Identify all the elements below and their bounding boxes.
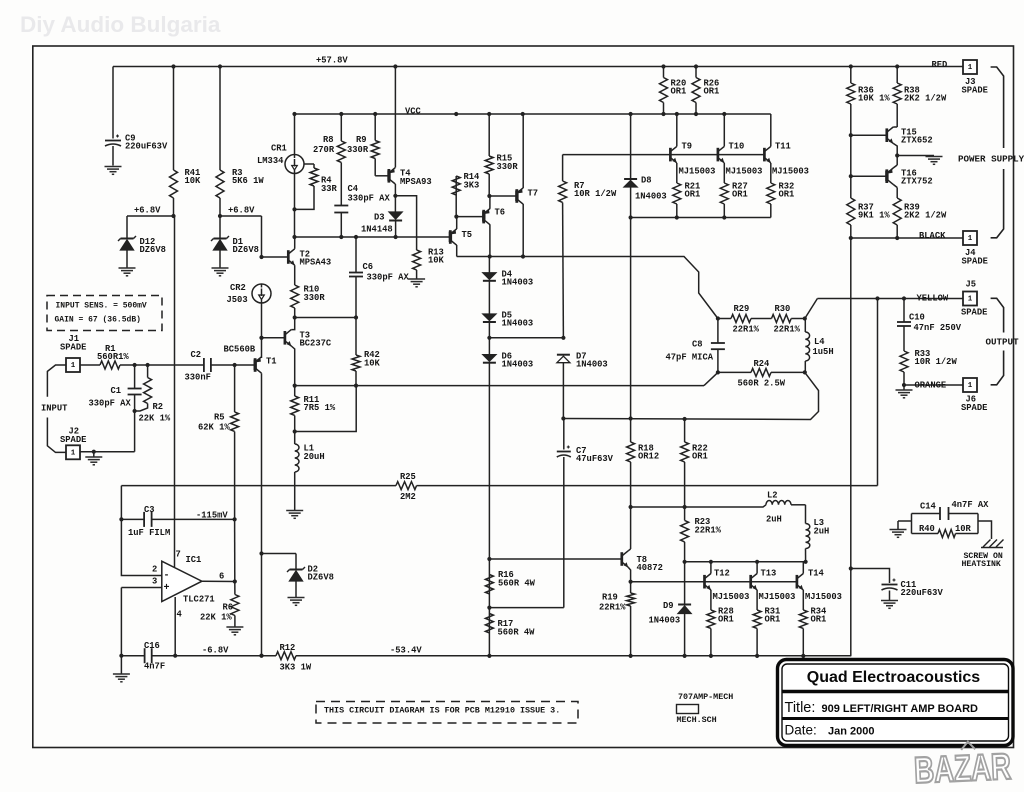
label T13 type [759,592,796,602]
wire D6 down to T8 base node [488,363,490,656]
junction BLACK R37 [849,236,900,240]
ground snubber [890,521,907,537]
label R33 [915,349,958,367]
svg-text:10R 1/2W: 10R 1/2W [915,357,958,367]
label C9 [125,133,168,151]
junction T12 collector [709,560,713,564]
node -53.4V label [390,645,422,655]
svg-text:1: 1 [968,296,973,304]
svg-text:OR1: OR1 [765,614,781,624]
diode D5 [483,281,496,322]
svg-text:47uF63V: 47uF63V [576,454,614,464]
transistor T6 [482,208,490,224]
transistor T9 [670,112,679,163]
svg-text:OUTPUT: OUTPUT [986,337,1020,348]
wire D7 down [562,363,564,419]
label D4 [502,269,534,287]
wire bridge to yellow [805,299,818,319]
wire R25 riser [877,299,879,486]
wire IC1 pin4 to -6.8V [174,597,176,656]
resistor R29 [718,315,772,323]
svg-text:+6.8V: +6.8V [134,205,161,215]
svg-text:1N4003: 1N4003 [502,318,534,328]
label R31 [765,606,781,624]
svg-text:-6.8V: -6.8V [202,645,229,655]
svg-text:D3: D3 [374,212,385,222]
svg-text:OR1: OR1 [671,86,687,96]
wire +input ground drop [120,588,122,656]
junction T8 emitter [629,580,633,584]
label R42 [364,350,381,369]
capacitor C1 [128,365,142,411]
svg-text:560R1%: 560R1% [97,352,129,362]
svg-text:10R 1/2W: 10R 1/2W [574,189,617,199]
svg-text:MJ15003: MJ15003 [713,592,750,602]
mech sheet symbol [677,692,734,725]
ground C11 [881,601,898,609]
svg-text:330R: 330R [497,162,519,172]
wire R10-C6 link [293,315,359,319]
svg-text:MPSA43: MPSA43 [300,257,332,267]
svg-text:T11: T11 [775,141,791,151]
label T7 [528,188,539,198]
node +57.8V label [316,55,348,65]
label D3 [361,212,393,234]
label L4 [813,337,834,357]
svg-text:10K: 10K [185,176,202,186]
junction C1/R2 bottom [133,409,137,413]
svg-text:MJ15003: MJ15003 [805,592,842,602]
svg-text:3K3 1W: 3K3 1W [280,662,312,672]
resistor R3 [216,67,224,217]
label CR2 [227,283,248,305]
label R40 [919,524,972,534]
diode D4 [483,257,496,281]
svg-text:C16: C16 [144,641,160,651]
label C7 [576,446,614,464]
label T16 [901,168,933,186]
wire +6.8V right [220,216,262,257]
ground R13 [408,279,425,287]
svg-text:T10: T10 [729,141,745,151]
junction T5/R14 [454,215,458,219]
svg-text:220uF63V: 220uF63V [901,588,944,598]
svg-text:OR1: OR1 [779,189,795,199]
junction L1 top [293,429,297,433]
svg-text:33R: 33R [321,184,338,194]
capacitor C6 [349,237,363,318]
snubber box right [977,514,979,534]
svg-text:ORANGE: ORANGE [915,380,947,390]
svg-text:+: + [164,583,170,594]
svg-text:560R 4W: 560R 4W [498,627,536,637]
ground J2 [85,452,102,465]
label C4 [348,184,391,204]
svg-text:CR1: CR1 [271,143,287,153]
svg-text:C8: C8 [692,339,703,349]
wire T6 emitter up [488,174,491,209]
label INPUT [41,403,68,413]
transistor T2 [288,237,294,285]
label IC1 pin3 [152,576,157,586]
svg-text:D9: D9 [663,601,674,611]
svg-text:C2: C2 [191,350,202,360]
wire R42 loop [295,386,357,432]
junction D8/decoupling rail [629,416,633,420]
svg-text:1N4148: 1N4148 [361,224,393,234]
wire -6.8V rail segment [121,655,144,657]
svg-text:TLC271: TLC271 [183,594,215,604]
transistor T14 [797,562,803,610]
svg-text:OR1: OR1 [704,86,720,96]
junction R19 rail [629,654,633,658]
svg-text:INPUT: INPUT [41,403,68,413]
svg-text:THIS CIRCUIT DIAGRAM IS FOR PC: THIS CIRCUIT DIAGRAM IS FOR PCB M12910 I… [324,706,560,716]
label T6 [495,207,506,217]
label R19 [599,592,626,612]
label J2 [60,426,86,445]
wire T7 emitter up [521,112,525,188]
junction R31 rail [755,654,759,658]
label CR1 [257,143,287,166]
svg-text:RED: RED [932,60,948,70]
junction C3 right [233,517,237,521]
wire output collector rail [685,561,806,563]
svg-text:C1: C1 [111,386,122,396]
label R14 [464,172,481,191]
svg-text:R30: R30 [775,304,791,314]
label C11 [901,580,944,598]
wire T3 base [259,336,285,340]
resistor R40 [912,530,979,538]
bracket OUTPUT [991,298,1004,385]
junction C1 top [133,363,137,367]
svg-text:707AMP-MECH: 707AMP-MECH [678,692,733,702]
junction T2 base wire [259,255,263,259]
svg-text:22K 1%: 22K 1% [200,612,232,622]
wire C7 to R16/R17 node [489,607,563,609]
label J1 [60,334,86,353]
snubber box left [911,514,913,534]
connector J6 [963,378,977,392]
wire T4 base [375,175,389,177]
junction R18 bottom [629,505,633,509]
node ORANGE label [915,380,947,390]
chassis ground heatsink [981,540,1004,548]
capacitor C9 [105,67,121,166]
label D9 [649,601,681,626]
svg-text:2M2: 2M2 [400,492,416,502]
wire T2 base [262,256,289,258]
label L3 [814,518,830,537]
svg-text:C6: C6 [363,262,374,272]
svg-text:SPADE: SPADE [961,307,987,317]
ground D1 [212,268,229,276]
svg-text:C3: C3 [144,505,155,515]
svg-text:GAIN = 67 (36.5dB): GAIN = 67 (36.5dB) [55,316,141,325]
svg-text:BAZAR: BAZAR [913,746,1012,791]
wire T4 collector down [394,184,396,196]
label IC1 [183,555,215,605]
resistor R27 [720,163,728,218]
junction R27 bottom [722,215,726,219]
svg-text:330pF AX: 330pF AX [348,193,391,203]
label T12 [714,568,730,578]
label R24 [738,359,786,389]
junction R4 bottom [292,207,296,211]
wire T5-T6 link [456,216,483,218]
svg-text:7: 7 [176,549,181,559]
wire main negative drop [850,238,852,569]
label D2 [308,564,334,582]
svg-text:VCC: VCC [405,106,422,116]
svg-text:MECH.SCH: MECH.SCH [677,715,717,725]
diode D12 [118,216,136,268]
svg-text:T9: T9 [682,141,693,151]
svg-text:R29: R29 [734,304,750,314]
resistor R39 [893,198,901,238]
junction T15 emitter [895,153,899,157]
svg-text:Title:: Title: [785,700,816,716]
wire D6-D7 link [489,336,565,340]
label J5 [961,279,987,317]
svg-text:L4: L4 [814,337,825,347]
node BLACK label [919,231,946,241]
resistor R17 [485,614,493,633]
wire IC1 output [202,580,235,582]
svg-text:SPADE: SPADE [962,256,988,266]
capacitor C10 [897,299,911,352]
svg-text:R9: R9 [356,135,367,145]
svg-text:330pF AX: 330pF AX [367,272,410,282]
label R27 [732,181,748,199]
label L1 [304,443,325,462]
wire +57.8V drop to T4 [393,64,397,167]
resistor R28 [707,610,715,656]
node VCC label [405,106,422,116]
junction C3 left [119,517,123,521]
node +6.8V label left [134,205,161,215]
label IC1 pin4 [177,609,183,619]
svg-text:OR1: OR1 [685,189,701,199]
svg-text:1N4003: 1N4003 [576,359,608,369]
label T13 [761,568,777,578]
bracket POWER SUPPLY [991,67,1004,238]
svg-text:1: 1 [968,235,973,243]
svg-text:T6: T6 [495,207,506,217]
wire VAS rail [457,257,718,319]
svg-text:9K1 1%: 9K1 1% [858,210,890,220]
resistor R4 [295,164,319,209]
resistor R23 [681,520,689,561]
wire J1 hook [47,365,66,397]
wire +6.8V left [127,215,174,217]
junction L4 top node [803,316,807,320]
svg-text:1uF FILM: 1uF FILM [128,528,170,538]
label T15 [901,127,933,145]
transistor T10 [718,112,727,163]
svg-text:OR1: OR1 [811,614,827,624]
transistor T11 [764,114,770,163]
wire T1 collector down [261,373,263,656]
junction L4 bottom node [803,370,807,374]
junction R16/R17 [487,606,491,610]
diode D6 [483,355,496,363]
svg-text:C10: C10 [909,312,925,322]
inductor L3 [806,505,810,562]
svg-text:SPADE: SPADE [962,85,988,95]
label C16 [144,641,165,672]
wire bias link [631,505,766,507]
svg-text:BLACK: BLACK [919,231,946,241]
junction R8 top [339,112,343,116]
label R38 [904,85,947,103]
svg-text:OR1: OR1 [692,451,708,461]
junction T1 drop rail [259,654,263,658]
transistor T15 [887,127,897,156]
node -115mV label [196,510,228,520]
junction T8 base node [487,557,491,561]
capacitor C14 [912,507,979,520]
svg-text:10K 1%: 10K 1% [858,93,890,103]
diode D8 [624,112,637,187]
transistor T3 [285,329,295,386]
svg-text:6: 6 [219,571,224,581]
resistor R30 [772,315,805,323]
wire +57.8V rail [113,66,963,68]
wire IC1 +input [121,587,161,589]
junction T6/R15 [487,194,491,198]
svg-text:1: 1 [71,362,76,370]
junction R42 bottom [354,384,358,388]
wire +6.8V to IC1 pin7 [174,216,176,567]
label R22 [692,443,708,461]
transistor T4 [387,168,395,184]
diode D1 [211,216,229,268]
junction C8 bottom node [716,370,720,374]
svg-text:22R1%: 22R1% [733,324,760,334]
transistor T16 [885,168,893,184]
svg-text:HEATSINK: HEATSINK [962,560,1001,569]
label J4 [962,248,988,267]
ground C9 [105,167,122,175]
junction R9 top [373,112,377,116]
wire J2 hook [47,418,66,453]
svg-text:4n7F: 4n7F [144,661,165,671]
label SCREW ON HEATSINK [962,552,1003,569]
svg-text:MJ15003: MJ15003 [772,166,809,176]
svg-text:T1: T1 [266,356,277,366]
svg-text:J5: J5 [966,279,977,289]
svg-text:+6.8V: +6.8V [228,205,255,215]
label J6 [961,394,987,413]
svg-text:Diy Audio Bulgaria: Diy Audio Bulgaria [20,12,221,37]
label OUTPUT [986,337,1020,348]
resistor R18 [627,442,635,549]
label IC1 pin2 [152,564,157,574]
resistor R36 [847,64,855,198]
svg-text:22R1%: 22R1% [774,324,801,334]
wire snubber right [978,521,992,539]
junction R23 bottom [683,560,687,564]
svg-text:7R5 1%: 7R5 1% [304,403,336,413]
svg-text:R19: R19 [602,592,618,602]
resistor R12 [276,652,851,660]
ground R6 [226,627,243,635]
label R25 [400,472,416,502]
label R11 [304,395,336,413]
resistor R13 [413,250,421,279]
wire emitter rail [629,215,771,219]
diode D2 [287,554,305,598]
wire driver base rail [563,154,765,156]
wire T5 collector down [456,245,458,257]
svg-text:10K: 10K [428,255,445,265]
ground D12 [119,268,136,276]
label T10 [729,141,745,151]
svg-text:POWER SUPPLY: POWER SUPPLY [958,154,1024,165]
resistor R16 [485,575,493,594]
svg-text:OR1: OR1 [718,614,734,624]
svg-text:1N4003: 1N4003 [502,359,534,369]
resistor R20 [660,64,668,116]
svg-text:-: - [164,570,170,581]
wire VCC rail [295,113,771,115]
svg-text:3: 3 [152,576,157,586]
ground T15 [926,157,943,165]
svg-text:22R1%: 22R1% [599,602,626,612]
label T3 [300,330,332,348]
junction C8 top node [716,316,720,320]
title block [778,660,1014,746]
svg-text:47nF 250V: 47nF 250V [914,323,962,333]
junction R2 top [146,363,150,367]
svg-text:R6: R6 [223,602,234,612]
wire D9 drop [684,562,686,605]
title block title [785,700,979,716]
svg-text:OR1: OR1 [732,189,748,199]
svg-text:1: 1 [968,64,973,72]
junction pin4 rail [173,654,177,658]
capacitor C8 [711,319,725,373]
svg-text:1N4003: 1N4003 [635,191,667,201]
label D6 [502,351,534,369]
junction R21 bottom [675,215,679,219]
transistor T12 [705,562,711,610]
resistor R31 [753,610,761,656]
label R17 [498,619,536,638]
svg-text:C4: C4 [348,184,359,194]
wire snubber left [898,520,912,522]
wire T15 emitter to ground [897,155,934,157]
capacitor C7 [557,419,571,608]
label R10 [304,284,326,303]
connector J3 [963,60,977,74]
svg-text:MPSA93: MPSA93 [400,177,432,187]
svg-text:Jan 2000: Jan 2000 [828,726,874,738]
junction C11 tap [849,566,853,570]
junction T4 collector [393,194,397,198]
resistor R7 [559,155,567,338]
label R37 [858,202,890,220]
label T14 type [805,592,842,602]
junction +input rail [119,654,123,658]
label D12 [140,237,166,255]
svg-text:ZTX652: ZTX652 [901,135,933,145]
wire T6-T7 link [489,195,516,197]
wire T6 collector down [488,225,492,259]
resistor R15 [485,112,493,174]
